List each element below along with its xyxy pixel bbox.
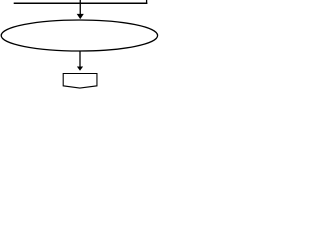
ellipse node — [1, 20, 157, 51]
wire: vertical connector from top into ellipse — [79, 0, 81, 14]
wire: bottom edge of clipped box at top — [14, 2, 148, 4]
arrowhead into off-page connector — [77, 67, 83, 71]
arrowhead into ellipse — [77, 14, 84, 19]
wire: vertical connector from ellipse to off-page connector — [79, 51, 81, 67]
wire: right edge riser of clipped box at top — [146, 0, 148, 4]
off-page connector pentagon — [63, 74, 97, 89]
